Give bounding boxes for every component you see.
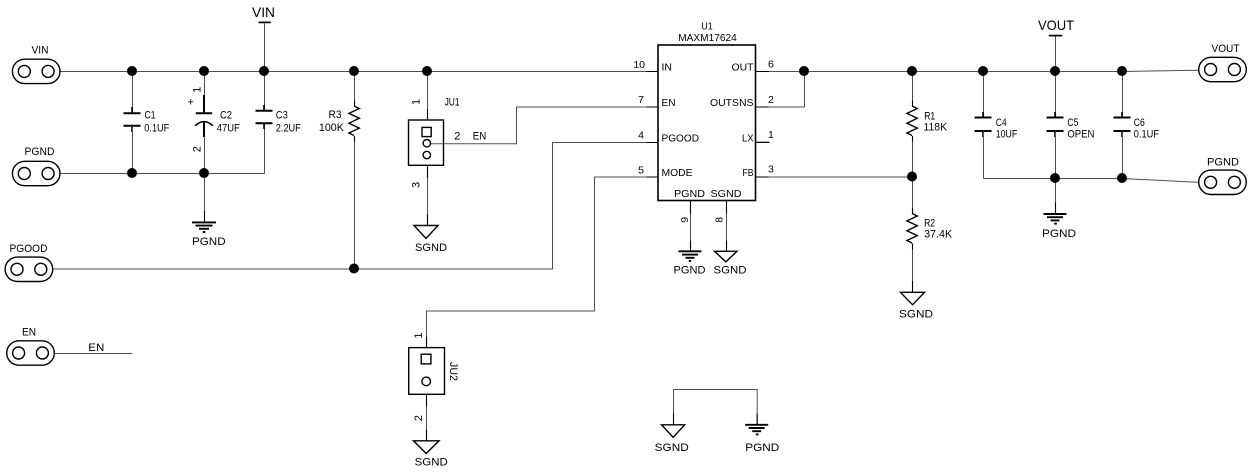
- wire EN stub from connector: [54, 353, 132, 355]
- junction at C1/PGND rail: [127, 168, 137, 178]
- pin stubs JU2: [426, 337, 428, 407]
- power flag VOUT: [1038, 17, 1074, 72]
- ground SGND under R2: [899, 292, 933, 320]
- svg-text:5: 5: [638, 164, 644, 176]
- svg-text:SGND: SGND: [711, 188, 742, 200]
- svg-text:OPEN: OPEN: [1067, 128, 1094, 140]
- connector EN: [7, 327, 55, 365]
- svg-text:PGND: PGND: [1042, 228, 1076, 240]
- svg-text:2: 2: [454, 131, 460, 143]
- pin stubs U1 right: [756, 72, 770, 178]
- svg-text:10: 10: [633, 59, 645, 71]
- svg-text:C2: C2: [220, 110, 232, 122]
- svg-text:R1: R1: [924, 110, 935, 122]
- power flag VIN: [252, 4, 275, 72]
- junction at C6/OUT rail: [1117, 66, 1127, 76]
- wire output ground rail: [984, 179, 1200, 183]
- connector PGND right: [1199, 156, 1247, 194]
- svg-text:C3: C3: [276, 110, 288, 122]
- svg-text:PGND: PGND: [674, 265, 706, 277]
- svg-text:PGND: PGND: [192, 236, 226, 248]
- ground lead stubs: [205, 203, 1056, 442]
- svg-text:9: 9: [679, 217, 691, 223]
- svg-text:10UF: 10UF: [996, 128, 1018, 140]
- svg-text:100K: 100K: [319, 122, 345, 134]
- wire PGND drop under C5: [1055, 179, 1057, 215]
- wire C3 ground drop: [264, 124, 266, 174]
- svg-text:SGND: SGND: [415, 457, 448, 469]
- junction at R3/PGOOD rail: [349, 264, 359, 274]
- svg-text:SGND: SGND: [714, 265, 747, 277]
- svg-text:VIN: VIN: [252, 4, 275, 20]
- wire PGND rail left: [61, 173, 265, 175]
- svg-text:1: 1: [413, 332, 425, 338]
- svg-text:R2: R2: [924, 217, 935, 229]
- ground SGND under JU1: [414, 226, 447, 254]
- junction at R1/OUT rail: [907, 66, 917, 76]
- connector PGOOD: [5, 243, 53, 281]
- svg-text:JU1: JU1: [445, 96, 460, 108]
- capacitor C4: [975, 72, 1018, 179]
- wire JU1 pin2 EN net to U1: [431, 107, 659, 144]
- junction at FB node: [907, 172, 917, 182]
- svg-text:OUT: OUT: [732, 61, 755, 73]
- svg-text:6: 6: [768, 59, 774, 71]
- svg-text:PGND: PGND: [25, 146, 55, 158]
- svg-text:37.4K: 37.4K: [924, 229, 953, 241]
- svg-text:C1: C1: [145, 110, 156, 122]
- ground SGND bridge left: [655, 425, 689, 454]
- pin stubs U1 bottom: [691, 201, 727, 214]
- svg-text:VIN: VIN: [32, 44, 49, 56]
- ground PGND under U1 pin9: [674, 251, 706, 276]
- svg-text:C5: C5: [1067, 117, 1078, 129]
- capacitor C6: [1114, 72, 1160, 179]
- wire VIN rail left: [61, 71, 659, 73]
- resistor lead stubs: [355, 101, 913, 250]
- svg-text:1: 1: [411, 99, 423, 105]
- svg-text:EN: EN: [22, 327, 36, 339]
- svg-text:EN: EN: [662, 97, 676, 109]
- junction at C1/VIN rail: [127, 66, 137, 76]
- junction at OUTSNS/OUT: [799, 66, 809, 76]
- wire U1 pin9 to PGND: [690, 201, 692, 252]
- capacitor C1: [124, 72, 170, 174]
- junction at C2/PGND rail: [199, 168, 209, 178]
- junction at C6/ground rail: [1117, 173, 1127, 183]
- svg-text:47UF: 47UF: [217, 123, 240, 135]
- svg-text:7: 7: [638, 94, 644, 106]
- svg-text:SGND: SGND: [655, 442, 689, 454]
- svg-text:PGOOD: PGOOD: [10, 243, 48, 255]
- svg-text:PGND: PGND: [745, 442, 779, 454]
- capacitor C2 polarized: [188, 72, 241, 174]
- svg-text:2.2UF: 2.2UF: [276, 123, 301, 135]
- wire OUTSNS to OUT: [756, 72, 805, 108]
- wire PGOOD rail: [53, 143, 659, 270]
- svg-text:MODE: MODE: [662, 167, 693, 179]
- svg-text:OUTSNS: OUTSNS: [710, 97, 754, 109]
- wire PGND drop under C2: [204, 174, 206, 223]
- svg-text:SGND: SGND: [899, 308, 933, 320]
- capacitor C5: [1047, 72, 1095, 179]
- pin stubs JU1: [427, 109, 429, 178]
- svg-text:U1: U1: [701, 21, 713, 33]
- svg-text:8: 8: [714, 217, 726, 223]
- svg-text:2: 2: [768, 94, 774, 106]
- svg-text:R3: R3: [329, 109, 342, 121]
- svg-text:VOUT: VOUT: [1212, 43, 1240, 55]
- resistor R2: [907, 177, 953, 293]
- svg-text:EN: EN: [473, 131, 487, 143]
- resistor R3: [319, 72, 359, 270]
- ground SGND under JU2: [414, 441, 448, 469]
- junction at C3/VIN rail: [259, 66, 269, 76]
- svg-text:3: 3: [768, 164, 774, 176]
- junction at C5/OUT rail: [1050, 66, 1060, 76]
- svg-text:2: 2: [413, 415, 425, 421]
- svg-text:0.1UF: 0.1UF: [144, 123, 169, 135]
- svg-text:PGND: PGND: [674, 188, 705, 200]
- svg-text:C4: C4: [996, 117, 1007, 129]
- wire FB net: [756, 176, 913, 178]
- svg-text:PGOOD: PGOOD: [662, 132, 700, 144]
- junction at C2/VIN rail: [199, 66, 209, 76]
- jumper JU2: [409, 332, 459, 421]
- svg-text:0.1UF: 0.1UF: [1134, 128, 1159, 140]
- wire MODE net U1 pin5 to JU2: [427, 177, 659, 348]
- ground PGND under C5: [1042, 214, 1076, 240]
- svg-text:+: +: [188, 97, 194, 109]
- junction at JU1/VIN rail: [422, 66, 432, 76]
- wire JU2 pin2 to SGND: [426, 395, 428, 441]
- svg-text:3: 3: [411, 182, 423, 188]
- jumper JU1: [409, 96, 487, 188]
- ground PGND under C2: [192, 222, 226, 248]
- svg-text:JU2: JU2: [447, 362, 459, 381]
- svg-text:VOUT: VOUT: [1038, 17, 1074, 33]
- svg-text:2: 2: [191, 146, 203, 152]
- wire JU1 pin3 to SGND: [427, 166, 429, 226]
- wire SGND-PGND bridge: [674, 390, 758, 426]
- svg-text:PGND: PGND: [1207, 156, 1239, 168]
- svg-text:SGND: SGND: [415, 242, 447, 254]
- svg-text:1: 1: [191, 87, 203, 93]
- svg-text:LX: LX: [742, 132, 754, 144]
- svg-text:IN: IN: [662, 61, 673, 73]
- junction at C4/OUT rail: [978, 66, 988, 76]
- ground PGND bridge right: [745, 425, 779, 454]
- wire JU1 pin1 to VIN rail: [427, 72, 429, 121]
- IC U1 MAXM17624 box: [633, 21, 774, 223]
- pin stubs U1 left: [647, 72, 659, 178]
- connector PGND left: [12, 146, 60, 186]
- connector VOUT: [1199, 43, 1247, 82]
- svg-text:118K: 118K: [924, 122, 948, 134]
- svg-text:1: 1: [768, 129, 774, 141]
- junction at R3/VIN rail: [349, 66, 359, 76]
- ground SGND under U1 pin8: [714, 251, 747, 276]
- svg-text:EN: EN: [88, 342, 104, 354]
- svg-text:C6: C6: [1134, 117, 1145, 129]
- wire OUT rail right: [756, 70, 1199, 71]
- svg-text:MAXM17624: MAXM17624: [678, 32, 737, 44]
- connector VIN: [12, 44, 60, 83]
- wire U1 pin8 to SGND: [726, 201, 728, 252]
- resistor R1: [907, 72, 948, 178]
- wire LX stub pin1: [756, 141, 770, 143]
- svg-text:4: 4: [638, 130, 644, 142]
- junction at C5/ground rail: [1050, 173, 1060, 183]
- svg-text:FB: FB: [743, 167, 754, 179]
- capacitor C3: [256, 72, 302, 135]
